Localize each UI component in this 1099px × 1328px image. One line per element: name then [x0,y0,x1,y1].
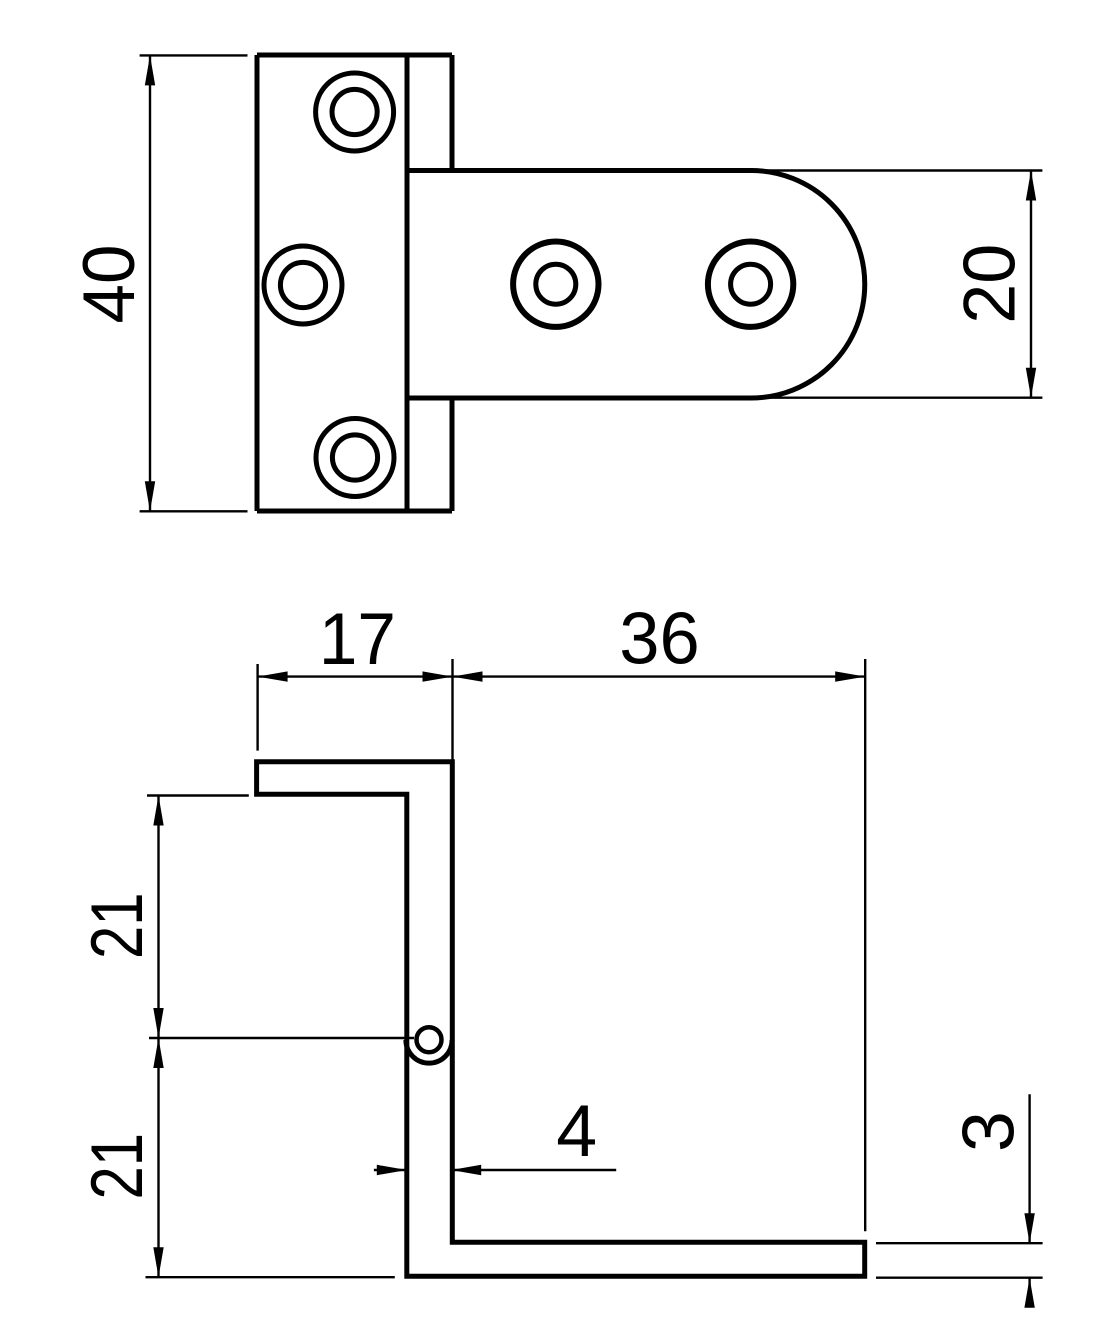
dim 40 line [149,55,151,511]
svg-text:21: 21 [75,892,158,959]
arrow 40 up [145,55,155,85]
plate outline (top view) [257,55,452,511]
arrow 17 right [423,671,453,681]
dim 4 tail left [374,1169,407,1171]
tab rounded end arc [751,171,865,399]
dim 17 ext left [256,664,258,751]
arrow 4 left outside [377,1165,407,1175]
hole top inner [332,89,377,134]
tab hole 2 outer [708,242,793,327]
hole bottom inner [332,435,377,480]
dim 20 ext top [753,169,1042,171]
dim 20 ext bottom [753,397,1042,399]
tab hole 1 outer [513,242,598,327]
dim 3 line lower [1028,1278,1030,1307]
dim 36 line [453,675,866,677]
dim 17 line [258,675,453,677]
tab hole 2 inner [731,264,771,304]
hole bottom outer [316,419,394,497]
dim 36 ext right [864,659,866,1231]
tab hole 1 inner [536,264,576,304]
dim 3 line upper [1028,1094,1030,1243]
dim 40 ext bottom [140,510,248,512]
tab top edge [407,168,753,173]
dim 40 ext top [140,54,248,56]
arrow 36 right [835,671,865,681]
dim 21 mid ext [149,1037,414,1039]
Z profile outline (bottom view) [257,762,865,1277]
hinge pin circle [417,1027,442,1052]
plate right edge upper segment [450,55,455,171]
arrow 20 up [1026,171,1036,201]
dim 3 ext top [876,1242,1043,1244]
dim 4 tail right [451,1169,616,1171]
dim 21 line [157,796,159,1278]
hinge knuckle arc [406,1040,452,1063]
svg-text:21: 21 [75,1133,158,1200]
dim 21 upper ext [147,794,249,796]
svg-text:40: 40 [67,245,150,324]
svg-text:3: 3 [947,1111,1030,1152]
dim 21 bottom ext [146,1276,395,1278]
dim 20 line [1030,171,1032,398]
arrow 21b down [153,1247,163,1277]
svg-text:17: 17 [319,597,396,680]
dim 3 ext bottom [876,1276,1043,1278]
arrow 3 top outside [1024,1213,1034,1243]
arrow 17 left [258,671,288,681]
hole top outer [316,73,394,151]
arrow 36 left [453,671,483,681]
plate right edge lower segment [450,398,455,511]
arrow 3 bottom outside [1024,1278,1034,1308]
plate fold line [405,55,410,511]
arrow 40 down [145,481,155,511]
tab bottom edge [407,396,753,401]
arrow 20 down [1026,368,1036,398]
arrow 21b up [153,1038,163,1068]
dim 17/36 shared ext [451,659,453,760]
hole middle inner [280,262,325,307]
svg-text:4: 4 [556,1089,597,1172]
svg-text:20: 20 [947,244,1030,324]
hole middle outer [264,246,342,324]
arrow 4 right outside [451,1165,481,1175]
arrow 21a down [153,1008,163,1038]
svg-text:36: 36 [619,596,700,679]
arrow 21a up [153,796,163,826]
